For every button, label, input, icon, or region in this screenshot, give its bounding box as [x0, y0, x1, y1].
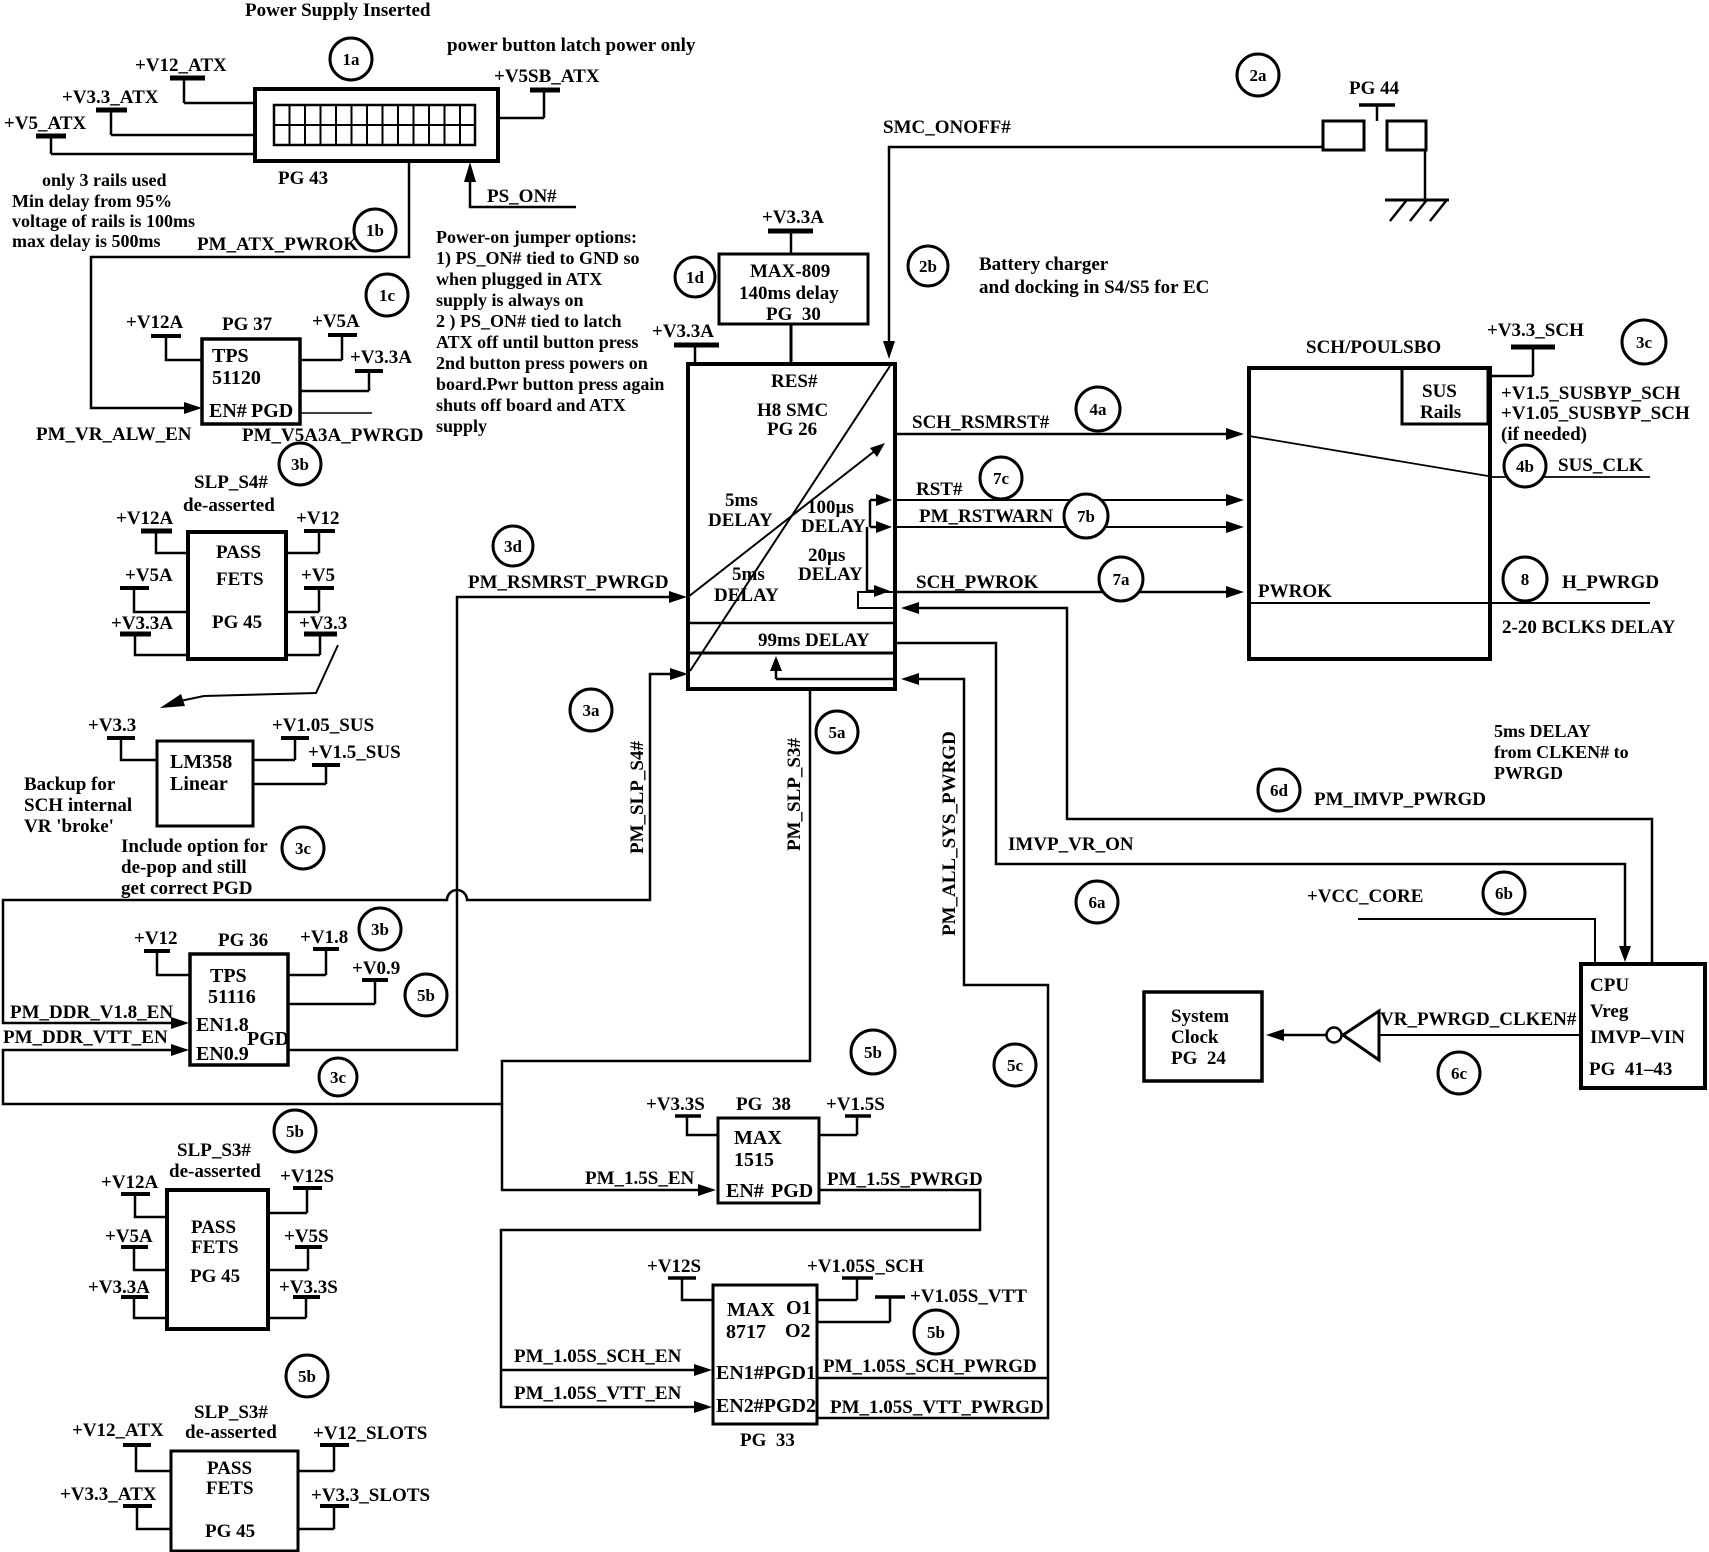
pin PS_ON# with arrow into connector	[464, 162, 576, 207]
power rail +V5A (fets2)	[105, 1226, 167, 1270]
regulator U5 MAX 8717 PG 33	[713, 1285, 817, 1451]
svg-text:PM_SLP_S4#: PM_SLP_S4#	[627, 741, 648, 854]
svg-text:DELAY: DELAY	[801, 516, 866, 537]
svg-text:TPS: TPS	[212, 345, 249, 367]
svg-text:de-asserted: de-asserted	[185, 1422, 277, 1443]
svg-text:51116: 51116	[208, 986, 256, 1008]
svg-text:7b: 7b	[1077, 507, 1095, 526]
callout 5b (+V0.9)	[405, 974, 447, 1016]
svg-text:FETS: FETS	[206, 1478, 254, 1499]
svg-text:LM358: LM358	[170, 751, 232, 773]
svg-text:de-asserted: de-asserted	[169, 1161, 261, 1182]
svg-text:Vreg: Vreg	[1590, 1001, 1629, 1022]
svg-text:5c: 5c	[1007, 1056, 1024, 1075]
wire internal PWROK notch box	[858, 592, 895, 608]
label PM_ALL_SYS_PWRGD (rotated)	[939, 731, 960, 936]
power rail +V3.3A (TPS51120)	[300, 347, 412, 391]
wire PM_1.5S_PWRGD from MAX1515 PGD to MAX8717 EN1/EN2	[501, 1169, 983, 1413]
svg-text:+V3.3_SLOTS: +V3.3_SLOTS	[311, 1485, 430, 1506]
jumper J2 PG 44	[1323, 78, 1426, 150]
svg-text:power button latch power only: power button latch power only	[447, 35, 696, 56]
svg-text:O1: O1	[786, 1297, 812, 1319]
callout 1d	[675, 257, 715, 297]
wire internal 99ms delay feed arrow	[770, 656, 893, 679]
pass fets Q2 block SLP_S3# PG 45	[167, 1140, 268, 1329]
callout 8	[1503, 557, 1547, 601]
svg-text:+V12A: +V12A	[126, 312, 184, 333]
svg-text:+V12_ATX: +V12_ATX	[135, 55, 227, 76]
svg-text:+V3.3A: +V3.3A	[652, 321, 714, 342]
svg-text:EN#: EN#	[209, 400, 247, 422]
wire PM_1.05S_VTT_PWRGD PGD2 output and PM_ALL_SYS_PWRGD loop to H8 SMC	[817, 673, 1048, 1418]
svg-text:2b: 2b	[919, 257, 937, 276]
power rail +V5A (TPS51120)	[300, 311, 360, 360]
power rail +V12 (fets1)	[286, 508, 340, 553]
callout 6b	[1483, 872, 1525, 914]
svg-text:CPU: CPU	[1590, 975, 1629, 996]
svg-text:EN#: EN#	[726, 1180, 764, 1202]
power rail +V1.05S_VTT output O2	[817, 1286, 1027, 1322]
svg-text:Include option for: Include option for	[121, 836, 268, 857]
svg-text:PWRGD: PWRGD	[1494, 763, 1563, 783]
callout 3a	[570, 689, 612, 731]
svg-text:3b: 3b	[371, 920, 389, 939]
svg-text:+V1.5_SUS: +V1.5_SUS	[308, 742, 401, 763]
svg-text:IMVP_VR_ON: IMVP_VR_ON	[1008, 834, 1134, 855]
svg-text:PM_1.05S_VTT_PWRGD: PM_1.05S_VTT_PWRGD	[830, 1397, 1044, 1418]
svg-text:PASS: PASS	[216, 542, 261, 563]
svg-text:7c: 7c	[993, 469, 1010, 488]
svg-text:5b: 5b	[864, 1043, 882, 1062]
wire +V3.3_ATX to connector	[111, 134, 256, 137]
svg-text:H8 SMC: H8 SMC	[757, 400, 828, 421]
callout 4a	[1076, 387, 1120, 431]
power rail +V3.3_ATX (fets3)	[60, 1484, 171, 1529]
power rail +V3.3_SCH	[1487, 320, 1584, 376]
callout 1c	[366, 274, 408, 316]
svg-text:Power-on jumper options:: Power-on jumper options:	[436, 227, 637, 247]
svg-text:PM_RSTWARN: PM_RSTWARN	[919, 506, 1053, 527]
svg-text:TPS: TPS	[210, 965, 247, 987]
wire SMC_ONOFF# from jumper to H8 SMC	[883, 117, 1323, 359]
callout 2a	[1237, 54, 1279, 96]
svg-text:when plugged in ATX: when plugged in ATX	[436, 269, 602, 289]
wire pointer arrow from +V3.3 to LM358 input	[160, 645, 338, 708]
svg-text:PWROK: PWROK	[1258, 581, 1332, 602]
svg-text:PM_1.5S_EN: PM_1.5S_EN	[585, 1168, 695, 1189]
svg-text:1) PS_ON# tied to GND so: 1) PS_ON# tied to GND so	[436, 248, 640, 269]
power rail +V3.3_SLOTS (fets3)	[298, 1485, 430, 1529]
svg-text:+V12: +V12	[296, 508, 340, 529]
callout 6d	[1258, 769, 1300, 811]
power rail +V1.5S (MAX1515)	[819, 1094, 885, 1135]
inverter U11	[1327, 1011, 1380, 1060]
svg-text:PG 33: PG 33	[740, 1430, 795, 1451]
svg-text:1515: 1515	[734, 1149, 774, 1171]
svg-text:supply: supply	[436, 416, 487, 436]
svg-text:5b: 5b	[286, 1122, 304, 1141]
svg-text:51120: 51120	[212, 367, 261, 389]
callout 1a	[330, 38, 372, 80]
wire MAX-809 RES# to H8 SMC	[790, 324, 793, 364]
wire VR_PWRGD_CLKEN# from CPU Vreg to inverter	[1379, 1009, 1581, 1035]
svg-text:PASS: PASS	[191, 1217, 236, 1238]
svg-text:140ms delay: 140ms delay	[739, 283, 839, 304]
svg-text:+V3.3A: +V3.3A	[88, 1277, 150, 1298]
controller U6 H8 SMC PG 26	[688, 364, 895, 689]
svg-text:2-20 BCLKS DELAY: 2-20 BCLKS DELAY	[1502, 617, 1676, 638]
svg-text:+V3.3_ATX: +V3.3_ATX	[62, 87, 159, 108]
svg-text:6b: 6b	[1495, 884, 1513, 903]
svg-text:max delay is 500ms: max delay is 500ms	[12, 231, 161, 251]
power rail +V1.05S_SCH output O1	[807, 1256, 924, 1300]
callout 7b	[1064, 494, 1108, 538]
svg-text:8717: 8717	[726, 1321, 766, 1343]
svg-text:DELAY: DELAY	[708, 510, 773, 531]
callout 6c	[1438, 1052, 1480, 1094]
svg-text:PM_V5A3A_PWRGD: PM_V5A3A_PWRGD	[242, 425, 424, 446]
svg-text:6c: 6c	[1451, 1064, 1468, 1083]
svg-text:+V3.3_ATX: +V3.3_ATX	[60, 1484, 157, 1505]
wire +V5SB_ATX to connector	[497, 117, 544, 120]
callout 1b	[354, 209, 396, 251]
title Power Supply Inserted	[245, 0, 431, 21]
svg-text:H_PWRGD: H_PWRGD	[1562, 572, 1659, 593]
power rail +V3.3A (MAX-809)	[762, 207, 824, 254]
svg-text:PG 30: PG 30	[766, 304, 821, 325]
callout 3d	[493, 526, 533, 566]
power rail +V5A (fets1)	[120, 565, 188, 612]
callout 3c (below TPS51116)	[319, 1058, 357, 1096]
callout 3b (+V1.8)	[359, 908, 401, 950]
power rail +V12A (fets1)	[116, 508, 188, 553]
wire internal diagonal RES# to SLP_S4 delay	[690, 366, 890, 671]
power rail +V3.3 (fets1)	[286, 613, 347, 655]
power rail +V12_ATX	[135, 55, 227, 103]
svg-text:MAX-809: MAX-809	[750, 261, 830, 282]
note battery charger and docking	[979, 254, 1209, 298]
svg-text:+V1.8: +V1.8	[300, 927, 348, 948]
svg-text:SUS: SUS	[1422, 381, 1457, 402]
callout 3b	[279, 443, 321, 485]
svg-text:3a: 3a	[583, 701, 601, 720]
label PM_1.05S_VTT_EN	[514, 1383, 682, 1404]
svg-text:+V1.05S_VTT: +V1.05S_VTT	[910, 1286, 1027, 1307]
supervisor U7 MAX-809 140ms delay PG 30	[719, 254, 868, 325]
svg-text:5b: 5b	[927, 1323, 945, 1342]
power rail +V3.3S (fets2)	[268, 1277, 338, 1318]
power rail +V3.3A (H8 top)	[652, 321, 719, 364]
svg-text:+V12S: +V12S	[280, 1166, 334, 1187]
svg-text:get correct PGD: get correct PGD	[121, 878, 253, 899]
svg-text:7a: 7a	[1113, 570, 1131, 589]
label H_PWRGD	[1562, 572, 1659, 593]
svg-text:+V3.3A: +V3.3A	[350, 347, 412, 368]
power rail +V5SB_ATX	[494, 66, 600, 118]
callout 5a	[816, 711, 858, 753]
callout 5b (above bottom pass fets)	[286, 1355, 328, 1397]
svg-text:+V5SB_ATX: +V5SB_ATX	[494, 66, 600, 87]
power rail +V5_ATX	[4, 113, 87, 154]
svg-text:8: 8	[1521, 570, 1530, 589]
svg-text:PM_RSMRST_PWRGD: PM_RSMRST_PWRGD	[468, 572, 669, 593]
svg-text:PG 45: PG 45	[212, 612, 262, 633]
callout 2b	[908, 246, 948, 286]
power rail +V12_ATX (fets3)	[72, 1420, 171, 1471]
svg-text:PM_1.05S_SCH_EN: PM_1.05S_SCH_EN	[514, 1346, 682, 1367]
regulator U2 LM358 Linear	[157, 741, 253, 826]
wire internal RST#/RSTWARN bracket with arrows	[867, 494, 892, 597]
svg-text:PM_DDR_V1.8_EN: PM_DDR_V1.8_EN	[10, 1002, 173, 1023]
svg-text:System: System	[1171, 1006, 1229, 1027]
svg-text:PASS: PASS	[207, 1458, 252, 1479]
svg-text:+V1.5_SUSBYP_SCH: +V1.5_SUSBYP_SCH	[1501, 383, 1680, 404]
svg-text:PM_1.5S_PWRGD: PM_1.5S_PWRGD	[827, 1169, 983, 1190]
wire jumper to ground	[1424, 150, 1427, 199]
connector J1 ATX power connector PG 43	[255, 89, 498, 189]
svg-text:PM_1.05S_VTT_EN: PM_1.05S_VTT_EN	[514, 1383, 682, 1404]
svg-text:4a: 4a	[1090, 400, 1108, 419]
svg-text:PS_ON#: PS_ON#	[487, 186, 557, 207]
label PM_DDR_V1.8_EN	[10, 1002, 173, 1023]
note only 3 rails used	[12, 170, 195, 251]
wire PM_RSMRST_PWRGD from TPS51116 PGD to H8 SMC	[288, 572, 687, 1050]
callout 5b (above mid pass fets)	[274, 1110, 316, 1152]
svg-text:+V3.3A: +V3.3A	[762, 207, 824, 228]
label PM_SLP_S3# (rotated)	[784, 738, 805, 851]
regulator U9 CPU Vreg IMVP-VIN PG 41-43	[1581, 964, 1705, 1088]
svg-text:Min delay from 95%: Min delay from 95%	[12, 191, 172, 211]
svg-text:3c: 3c	[295, 839, 312, 858]
callout 7a	[1099, 557, 1143, 601]
svg-text:SLP_S4#: SLP_S4#	[194, 472, 268, 493]
svg-text:board.Pwr button press again: board.Pwr button press again	[436, 374, 664, 394]
svg-text:EN2#PGD2: EN2#PGD2	[716, 1395, 816, 1417]
svg-text:Power Supply Inserted: Power Supply Inserted	[245, 0, 431, 21]
svg-text:supply is always on: supply is always on	[436, 290, 584, 310]
svg-text:3c: 3c	[330, 1068, 347, 1087]
svg-text:3c: 3c	[1636, 333, 1653, 352]
callout 5b (MAX8717)	[914, 1310, 958, 1354]
wire +V5_ATX to connector	[51, 153, 256, 156]
svg-text:+V12: +V12	[134, 928, 178, 949]
sub-block SUS Rails	[1402, 368, 1488, 424]
wire H_PWRGD internal and output	[1249, 602, 1650, 604]
svg-text:PG 37: PG 37	[222, 314, 273, 335]
svg-text:PG 43: PG 43	[278, 168, 328, 189]
svg-text:5b: 5b	[417, 986, 435, 1005]
svg-text:5a: 5a	[829, 723, 847, 742]
svg-text:+V3.3: +V3.3	[299, 613, 347, 634]
power rail +V0.9 output	[288, 958, 400, 1004]
label SUS_CLK	[1558, 455, 1644, 476]
svg-text:5b: 5b	[298, 1367, 316, 1386]
svg-text:SCH internal: SCH internal	[24, 795, 132, 816]
svg-text:+V12_ATX: +V12_ATX	[72, 1420, 164, 1441]
svg-text:PG 26: PG 26	[767, 419, 817, 440]
svg-text:+VCC_CORE: +VCC_CORE	[1307, 886, 1423, 907]
wire +VCC_CORE to CPU Vreg	[1307, 886, 1595, 964]
label PM_1.05S_SCH_EN	[514, 1346, 682, 1367]
wire IMVP_VR_ON from H8 to CPU Vreg	[895, 643, 1631, 962]
svg-text:PM_ATX_PWROK: PM_ATX_PWROK	[197, 234, 358, 255]
svg-text:1b: 1b	[366, 221, 384, 240]
svg-text:+V1.5S: +V1.5S	[826, 1094, 885, 1115]
wire RST# from H8 to SCH	[897, 479, 1244, 506]
svg-text:+V5A: +V5A	[105, 1226, 153, 1247]
svg-text:+V3.3S: +V3.3S	[279, 1277, 338, 1298]
power rail +V3.3 (LM358)	[88, 715, 157, 760]
svg-text:ATX off until button press: ATX off until button press	[436, 332, 638, 352]
svg-text:EN1.8: EN1.8	[196, 1014, 249, 1036]
svg-text:and docking in S4/S5 for EC: and docking in S4/S5 for EC	[979, 277, 1209, 298]
svg-text:+V3.3_SCH: +V3.3_SCH	[1487, 320, 1584, 341]
pass fets Q3 block SLP_S3# PG 45 (slots)	[171, 1402, 298, 1551]
svg-text:+V3.3: +V3.3	[88, 715, 136, 736]
svg-text:PG 45: PG 45	[190, 1266, 240, 1287]
svg-text:VR_PWRGD_CLKEN#: VR_PWRGD_CLKEN#	[1380, 1009, 1577, 1030]
callout 3c (SCH)	[1622, 320, 1666, 364]
svg-text:3b: 3b	[291, 455, 309, 474]
svg-text:+V12A: +V12A	[116, 508, 174, 529]
svg-text:PG 44: PG 44	[1349, 78, 1400, 99]
power rail +V1.8 output	[288, 927, 348, 975]
svg-text:PM_1.05S_SCH_PWRGD: PM_1.05S_SCH_PWRGD	[823, 1356, 1037, 1377]
svg-text:99ms DELAY: 99ms DELAY	[758, 630, 870, 651]
regulator U3 TPS 51116 PG 36	[190, 930, 289, 1065]
wire SCH_RSMRST# from H8 to SCH	[895, 412, 1244, 440]
svg-text:MAX: MAX	[734, 1127, 782, 1149]
block U10 System Clock PG 24	[1144, 992, 1262, 1081]
regulator U1 TPS 51120 PG 37	[202, 314, 300, 424]
svg-text:MAX: MAX	[727, 1299, 775, 1321]
note power button latch power only	[447, 35, 696, 56]
label PM_DDR_VTT_EN	[3, 1027, 168, 1048]
svg-text:PM_SLP_S3#: PM_SLP_S3#	[784, 738, 805, 851]
wire PM_IMVP_PWRGD from CPU Vreg to H8 SMC	[901, 602, 1652, 963]
ground	[1385, 200, 1449, 221]
wire PGD stub PM_V5A3A_PWRGD	[242, 413, 424, 446]
svg-text:1d: 1d	[686, 268, 705, 287]
svg-text:+V1.05_SUS: +V1.05_SUS	[272, 715, 374, 736]
svg-text:SCH_RSMRST#: SCH_RSMRST#	[912, 412, 1050, 433]
svg-text:100µs: 100µs	[807, 497, 854, 518]
power rail +V12A (fets2)	[101, 1172, 167, 1217]
power rail +V12S (MAX8717)	[647, 1256, 713, 1300]
svg-text:DELAY: DELAY	[798, 564, 863, 585]
svg-text:PG 41–43: PG 41–43	[1589, 1059, 1672, 1080]
wire PM_SLP_S4# net from H8 SMC to TPS51116 EN1.8 (hump over crossing)	[3, 668, 688, 1029]
power rail +V12S (fets2)	[268, 1166, 334, 1213]
svg-text:SLP_S3#: SLP_S3#	[177, 1140, 251, 1161]
svg-text:4b: 4b	[1516, 457, 1534, 476]
power rail +V3.3_ATX	[62, 87, 159, 135]
svg-text:de-asserted: de-asserted	[183, 495, 275, 516]
wire PM_1.05S_SCH_PWRGD PGD1 output	[817, 1356, 1048, 1378]
svg-text:de-pop and still: de-pop and still	[121, 857, 247, 878]
svg-text:+V3.3S: +V3.3S	[646, 1094, 705, 1115]
svg-text:Battery charger: Battery charger	[979, 254, 1109, 275]
svg-text:IMVP–VIN: IMVP–VIN	[1590, 1027, 1685, 1048]
svg-text:+V12_SLOTS: +V12_SLOTS	[313, 1423, 427, 1444]
svg-text:Backup for: Backup for	[24, 774, 116, 795]
svg-text:PGD: PGD	[251, 400, 293, 422]
power rail +V3.3A (fets1)	[111, 613, 188, 655]
svg-text:DELAY: DELAY	[714, 585, 779, 606]
wire +V12_ATX to connector	[184, 102, 256, 105]
svg-text:2nd button press powers on: 2nd button press powers on	[436, 353, 648, 373]
power rail +V5 (fets1)	[286, 565, 335, 612]
note power-on jumper options	[436, 227, 664, 436]
label PM_VR_ALW_EN	[36, 424, 192, 445]
svg-text:PG 38: PG 38	[736, 1094, 791, 1115]
svg-text:+V5_ATX: +V5_ATX	[4, 113, 87, 134]
callout 7c	[980, 457, 1022, 499]
svg-text:+V5: +V5	[301, 565, 335, 586]
svg-text:PM_ALL_SYS_PWRGD: PM_ALL_SYS_PWRGD	[939, 731, 960, 936]
svg-text:5ms: 5ms	[725, 490, 758, 511]
svg-text:6d: 6d	[1270, 781, 1289, 800]
note +V1.5_SUSBYP_SCH rails	[1501, 383, 1690, 445]
svg-text:only 3 rails used: only 3 rails used	[42, 170, 167, 190]
svg-text:+V1.05S_SCH: +V1.05S_SCH	[807, 1256, 924, 1277]
svg-text:1c: 1c	[379, 286, 396, 305]
svg-text:shuts off board and ATX: shuts off board and ATX	[436, 395, 626, 415]
svg-text:PGD: PGD	[771, 1180, 813, 1202]
wire PM_ATX_PWROK from connector to TPS51120 EN#	[91, 161, 409, 414]
svg-text:PM_IMVP_PWRGD: PM_IMVP_PWRGD	[1314, 789, 1486, 810]
svg-text:FETS: FETS	[191, 1237, 239, 1258]
svg-text:SCH_PWROK: SCH_PWROK	[916, 572, 1039, 593]
svg-text:Rails: Rails	[1420, 402, 1461, 423]
note include option for de-pop	[121, 836, 268, 899]
svg-text:2a: 2a	[1250, 66, 1268, 85]
power rail +V1.05_SUS output	[253, 715, 374, 760]
wire PM_RSTWARN from H8 to SCH	[897, 506, 1244, 533]
svg-text:from CLKEN# to: from CLKEN# to	[1494, 742, 1629, 762]
regulator U4 MAX 1515 PG 38	[718, 1094, 819, 1203]
svg-text:5ms DELAY: 5ms DELAY	[1494, 721, 1591, 741]
svg-text:RES#: RES#	[771, 371, 818, 392]
callout 4b	[1504, 445, 1546, 487]
power rail +V12 (TPS51116)	[134, 928, 190, 975]
svg-text:2 ) PS_ON# tied to latch: 2 ) PS_ON# tied to latch	[436, 311, 621, 332]
svg-text:20µs: 20µs	[808, 545, 845, 566]
power rail +V12_SLOTS (fets3)	[298, 1423, 427, 1471]
callout 5c	[994, 1044, 1036, 1086]
svg-text:SCH/POULSBO: SCH/POULSBO	[1306, 337, 1441, 358]
svg-text:+V3.3A: +V3.3A	[111, 613, 173, 634]
svg-text:VR 'broke': VR 'broke'	[24, 816, 114, 837]
svg-text:6a: 6a	[1089, 893, 1107, 912]
svg-text:Linear: Linear	[170, 773, 228, 795]
wire SCH_PWROK from H8 to SCH	[897, 572, 1244, 598]
svg-text:EN0.9: EN0.9	[196, 1043, 249, 1065]
svg-text:+V12A: +V12A	[101, 1172, 159, 1193]
note 2-20 BCLKS DELAY	[1502, 617, 1676, 638]
svg-text:+V1.05_SUSBYP_SCH: +V1.05_SUSBYP_SCH	[1501, 403, 1690, 424]
svg-text:voltage of rails is 100ms: voltage of rails is 100ms	[12, 211, 195, 231]
svg-text:SLP_S3#: SLP_S3#	[194, 1402, 268, 1423]
note 5ms delay from CLKEN#	[1494, 721, 1629, 783]
svg-text:+V5S: +V5S	[284, 1226, 329, 1247]
svg-text:+V5A: +V5A	[312, 311, 360, 332]
svg-text:+V0.9: +V0.9	[352, 958, 400, 979]
callout 3c	[282, 827, 324, 869]
svg-text:+V5A: +V5A	[125, 565, 173, 586]
svg-text:EN1#PGD1: EN1#PGD1	[716, 1362, 816, 1384]
chipset U8 SCH/POULSBO	[1249, 337, 1490, 659]
